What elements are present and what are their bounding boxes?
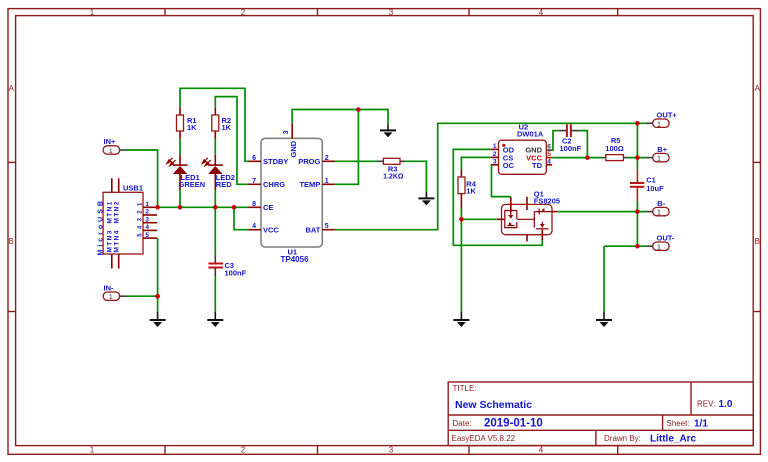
ground (U1 GND net) bbox=[380, 124, 396, 137]
wire R3 to ground bbox=[405, 161, 427, 192]
wire CE row bbox=[157, 206, 248, 208]
svg-text:New Schematic: New Schematic bbox=[455, 399, 532, 411]
resistor R3 bbox=[377, 158, 404, 180]
svg-text:6: 6 bbox=[547, 144, 551, 151]
svg-text:1: 1 bbox=[657, 121, 661, 128]
svg-text:TD: TD bbox=[532, 161, 543, 170]
wire R1 bottom to LED1 bbox=[179, 139, 181, 155]
svg-text:OC: OC bbox=[503, 161, 515, 170]
wire C2 right to VCC net bbox=[579, 131, 587, 158]
connector OUT- bbox=[646, 233, 675, 251]
resistor R1 bbox=[177, 107, 198, 139]
svg-text:5: 5 bbox=[145, 232, 149, 239]
svg-text:1: 1 bbox=[90, 8, 95, 17]
connector USB1 (Micro USB) bbox=[98, 178, 158, 268]
wire R2 to CHRG bbox=[215, 97, 248, 185]
wire LED2 to CE row bbox=[214, 190, 216, 207]
svg-text:1: 1 bbox=[493, 143, 497, 150]
svg-text:Drawn By:: Drawn By: bbox=[604, 434, 641, 443]
svg-text:IN+: IN+ bbox=[104, 137, 117, 146]
wire R5 to B+ bbox=[628, 157, 646, 159]
capacitor C1 bbox=[630, 169, 664, 201]
svg-text:B: B bbox=[9, 237, 14, 246]
wire U2 CS to R4 bbox=[461, 157, 490, 170]
wire U2 OC to Q1 gate bbox=[492, 165, 511, 197]
resistor R5 bbox=[602, 136, 628, 161]
svg-text:B-: B- bbox=[657, 199, 665, 208]
LED LED1 (GREEN) bbox=[167, 155, 205, 190]
wire R4 bottom junction to Q1 bbox=[461, 218, 496, 220]
junction B+ bbox=[635, 155, 640, 160]
wire LED1 to CE row bbox=[179, 190, 181, 207]
svg-text:OUT-: OUT- bbox=[657, 233, 675, 242]
svg-text:BAT: BAT bbox=[305, 225, 320, 234]
wire USB pin5 down bbox=[157, 238, 159, 312]
svg-text:TP4056: TP4056 bbox=[281, 255, 310, 264]
wire Q1 drain to B- bbox=[557, 211, 646, 213]
junction OUT+ bbox=[635, 121, 640, 126]
junction IN+/pin1 bbox=[155, 205, 160, 210]
connector IN+ bbox=[103, 137, 126, 155]
svg-text:100Ω: 100Ω bbox=[605, 144, 624, 153]
wire U1 GND pin to ground bbox=[292, 110, 388, 125]
ground (R3 net) bbox=[418, 192, 434, 205]
svg-text:STDBY: STDBY bbox=[263, 157, 288, 166]
svg-text:GND: GND bbox=[289, 140, 298, 157]
junction TEMP/GND bbox=[356, 107, 361, 112]
svg-text:FS8205: FS8205 bbox=[534, 197, 560, 206]
svg-text:TEMP: TEMP bbox=[299, 180, 320, 189]
svg-text:10uF: 10uF bbox=[646, 184, 664, 193]
wire R4 bottom to ground bbox=[460, 209, 462, 312]
svg-text:Date:: Date: bbox=[453, 419, 472, 428]
wire BAT to OUT+ net bbox=[335, 123, 646, 229]
wire TEMP to GND net bbox=[335, 110, 359, 185]
resistor R4 bbox=[458, 170, 477, 209]
capacitor C3 bbox=[208, 255, 246, 277]
wire U2 GND pin to C2 left bbox=[552, 131, 558, 151]
svg-text:Little_Arc: Little_Arc bbox=[650, 434, 697, 445]
wire VCC drop bbox=[234, 207, 249, 229]
svg-text:A: A bbox=[9, 84, 15, 93]
junction LED2/C3/CE bbox=[213, 205, 218, 210]
svg-text:4: 4 bbox=[145, 224, 149, 231]
svg-text:4: 4 bbox=[539, 446, 544, 455]
svg-text:1: 1 bbox=[657, 156, 661, 163]
svg-text:Sheet:: Sheet: bbox=[667, 419, 690, 428]
wire IN+ to USB pin1 bbox=[127, 150, 158, 207]
svg-text:IN-: IN- bbox=[104, 283, 115, 292]
svg-text:B+: B+ bbox=[657, 145, 667, 154]
ground (R4 net) bbox=[453, 312, 469, 327]
IC U1 TP4056 bbox=[249, 123, 335, 264]
svg-text:5: 5 bbox=[547, 151, 551, 158]
svg-text:A: A bbox=[755, 84, 761, 93]
svg-text:1K: 1K bbox=[187, 123, 197, 132]
svg-text:4: 4 bbox=[539, 8, 544, 17]
wire trunk C1 lower bbox=[636, 201, 638, 246]
svg-text:B: B bbox=[755, 237, 760, 246]
svg-text:PROG: PROG bbox=[298, 157, 320, 166]
capacitor C2 bbox=[558, 124, 581, 153]
connector B- bbox=[646, 199, 669, 217]
svg-text:1: 1 bbox=[109, 294, 113, 301]
svg-text:OUT+: OUT+ bbox=[657, 110, 678, 119]
junction LED1/CE bbox=[178, 205, 183, 210]
svg-text:EasyEDA V5.8.22: EasyEDA V5.8.22 bbox=[452, 434, 516, 443]
junction IN-/pin5 bbox=[155, 294, 160, 299]
svg-text:4: 4 bbox=[252, 223, 256, 230]
ground (USB/IN- net) bbox=[150, 312, 166, 327]
svg-text:CE: CE bbox=[263, 203, 273, 212]
svg-text:RED: RED bbox=[216, 180, 232, 189]
svg-text:MTN2: MTN2 bbox=[114, 200, 121, 223]
wire U2 OD net bbox=[453, 149, 542, 245]
svg-text:3: 3 bbox=[493, 158, 497, 165]
svg-text:1: 1 bbox=[90, 446, 95, 455]
ground (OUT- net) bbox=[596, 312, 612, 327]
svg-text:TITLE:: TITLE: bbox=[453, 384, 477, 393]
svg-text:2: 2 bbox=[145, 209, 149, 216]
resistor R2 bbox=[212, 107, 232, 139]
junction C2/VCC bbox=[585, 155, 590, 160]
LED LED2 (RED) bbox=[202, 155, 235, 190]
svg-text:100nF: 100nF bbox=[560, 144, 582, 153]
svg-text:1.0: 1.0 bbox=[719, 399, 733, 410]
svg-text:3: 3 bbox=[283, 130, 290, 134]
svg-text:2: 2 bbox=[241, 8, 246, 17]
junction VCC drop bbox=[232, 205, 237, 210]
svg-text:1: 1 bbox=[145, 201, 149, 208]
svg-text:CHRG: CHRG bbox=[263, 180, 285, 189]
svg-text:1K: 1K bbox=[222, 123, 232, 132]
svg-text:1: 1 bbox=[325, 178, 329, 185]
connector OUT+ bbox=[646, 110, 678, 128]
junction R4/Q1 bbox=[459, 217, 464, 222]
wire R1 to STDBY bbox=[180, 88, 249, 161]
transistor Q1 FS8205 (dual MOSFET) bbox=[497, 189, 560, 241]
svg-text:7: 7 bbox=[252, 178, 256, 185]
wire OUT- row bbox=[604, 245, 646, 247]
svg-text:R3: R3 bbox=[388, 165, 398, 174]
svg-text:MicroUSB: MicroUSB bbox=[98, 198, 105, 255]
svg-text:MTN4: MTN4 bbox=[114, 229, 121, 252]
svg-text:3: 3 bbox=[145, 216, 149, 223]
svg-text:2019-01-10: 2019-01-10 bbox=[484, 418, 543, 430]
svg-text:1: 1 bbox=[657, 244, 661, 251]
svg-text:6: 6 bbox=[252, 155, 256, 162]
wire OUT- to ground bbox=[603, 246, 605, 311]
ground (C3 net) bbox=[207, 312, 223, 327]
svg-text:1: 1 bbox=[657, 210, 661, 217]
wire IN- to pin5 net bbox=[127, 295, 158, 297]
svg-text:8: 8 bbox=[252, 201, 256, 208]
svg-text:GREEN: GREEN bbox=[179, 180, 206, 189]
svg-text:REV:: REV: bbox=[697, 400, 715, 409]
svg-text:5: 5 bbox=[325, 223, 329, 230]
svg-text:DW01A: DW01A bbox=[517, 129, 544, 138]
svg-text:1/1: 1/1 bbox=[694, 419, 708, 430]
wire CE row to C3 bbox=[214, 207, 216, 255]
svg-text:1K: 1K bbox=[466, 186, 476, 195]
svg-text:2: 2 bbox=[493, 151, 497, 158]
svg-text:VCC: VCC bbox=[263, 225, 279, 234]
svg-text:3: 3 bbox=[389, 446, 394, 455]
connector IN- bbox=[103, 283, 126, 301]
svg-text:2: 2 bbox=[325, 155, 329, 162]
wire U2 VCC to R5 bbox=[552, 157, 601, 159]
svg-text:100nF: 100nF bbox=[225, 269, 247, 278]
svg-text:USB1: USB1 bbox=[123, 184, 143, 193]
wire right trunk bbox=[636, 123, 638, 169]
junction B- bbox=[635, 209, 640, 214]
connector B+ bbox=[646, 145, 669, 163]
wire R2 bottom to LED2 bbox=[214, 139, 216, 155]
svg-text:2: 2 bbox=[241, 446, 246, 455]
IC U2 DW01A bbox=[491, 122, 553, 174]
wire PROG to R3 bbox=[335, 160, 377, 162]
wire C3 to ground bbox=[214, 276, 216, 311]
svg-text:1: 1 bbox=[109, 148, 113, 155]
svg-text:1.2KΩ: 1.2KΩ bbox=[383, 174, 404, 181]
svg-text:3: 3 bbox=[389, 8, 394, 17]
junction OUT- bbox=[635, 244, 640, 249]
svg-text:4: 4 bbox=[547, 158, 551, 165]
